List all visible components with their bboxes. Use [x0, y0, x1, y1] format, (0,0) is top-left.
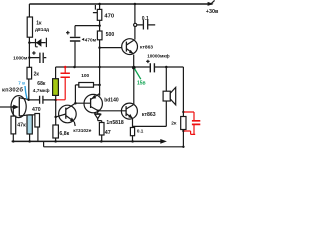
node lower rail 2k junction	[182, 146, 184, 148]
svg-text:2к: 2к	[171, 120, 177, 126]
svg-text:15в: 15в	[137, 81, 146, 87]
svg-text:0.1: 0.1	[137, 129, 144, 134]
node 2k bottom	[182, 130, 184, 132]
diode VD d814d zener	[29, 38, 46, 47]
resistor R 470 bottom	[35, 114, 40, 128]
annotation blue pointer 7v	[25, 86, 27, 99]
wire left branch vertical	[28, 4, 31, 99]
node rail dots	[12, 140, 15, 143]
svg-text:+30в: +30в	[206, 9, 219, 15]
resistor R 100	[79, 83, 94, 88]
resistor R 1k	[27, 17, 32, 37]
transistor Q kt3102e	[59, 105, 77, 123]
svg-text:68к: 68к	[37, 81, 46, 87]
svg-text:0.1: 0.1	[142, 16, 149, 22]
node feedback-base	[54, 116, 57, 119]
svg-text:1к: 1к	[36, 20, 42, 26]
node jfet drain	[27, 98, 30, 101]
diode VD 1n5818	[95, 111, 102, 123]
node top rail dots	[98, 3, 101, 6]
svg-text:2к: 2к	[34, 71, 40, 77]
svg-text:кп302б: кп302б	[2, 86, 23, 93]
capacitor C 4.7mkf	[29, 99, 56, 101]
transistor Q kt863 upper	[122, 39, 138, 55]
svg-text:bd140: bd140	[104, 97, 119, 103]
svg-text:470: 470	[32, 107, 41, 113]
node diode junction	[28, 41, 31, 44]
resistor R teal source	[27, 115, 32, 134]
resistor R 47k gate	[12, 107, 14, 141]
resistor R 470 top	[97, 9, 102, 20]
svg-text:47к: 47к	[17, 122, 26, 128]
svg-text:10000мкф: 10000мкф	[147, 53, 169, 59]
node feedback-cap	[54, 99, 57, 102]
node mid vertical dots	[98, 24, 101, 27]
wire kt863 upper base	[100, 47, 122, 49]
svg-text:100: 100	[81, 73, 89, 79]
wire mid bus y67	[56, 67, 184, 117]
wire ground rail	[12, 140, 161, 142]
resistor R 6.8k	[53, 125, 59, 138]
resistor R 68k green feedback	[53, 79, 59, 96]
svg-text:470м: 470м	[85, 37, 97, 42]
svg-text:4,7мкф: 4,7мкф	[33, 87, 50, 94]
svg-text:кт863: кт863	[142, 112, 156, 118]
resistor R 2k right	[181, 117, 186, 130]
capacitor C 10000mkf	[146, 60, 149, 63]
capacitor C 470m	[66, 26, 100, 67]
wire jfet source	[19, 115, 35, 116]
speaker	[133, 67, 167, 126]
svg-text:470: 470	[104, 14, 114, 20]
red capacitor parallel 68k	[56, 66, 70, 100]
transistor Q bd140	[84, 94, 102, 112]
transistor Q kp302b jfet	[11, 96, 26, 118]
svg-text:кт3102е: кт3102е	[73, 128, 91, 134]
power terminal +30V arrow	[208, 2, 214, 6]
svg-text:1000м: 1000м	[13, 56, 28, 62]
wire kt3102 collector to 100	[75, 85, 99, 103]
node bus dots	[73, 66, 76, 69]
wire lower ground return	[44, 141, 184, 146]
resistor R 47	[99, 123, 104, 136]
svg-text:7 в: 7 в	[18, 81, 25, 86]
stub fragment near 470	[93, 5, 97, 13]
resistor R 2k left	[27, 67, 32, 79]
ground rail end arrow	[160, 139, 167, 144]
wire top +30V rail	[29, 3, 212, 5]
node gate-47k	[12, 106, 14, 108]
capacitor C 0.1 top	[137, 24, 155, 26]
node bd140 collector	[97, 110, 100, 113]
wire feedback vertical	[55, 95, 57, 141]
wire mid vertical x99.6	[99, 4, 101, 96]
transistor Q kt863 lower	[133, 68, 135, 105]
resistor R 0.1	[130, 128, 134, 136]
svg-text:47: 47	[105, 130, 111, 136]
label 470m with arrow	[82, 38, 85, 41]
node cap 1000m junction	[28, 56, 31, 59]
svg-text:500: 500	[106, 32, 115, 38]
annotation green tick 15v	[135, 69, 141, 79]
svg-text:1n5818: 1n5818	[106, 120, 123, 126]
svg-text:6,8к: 6,8к	[59, 131, 69, 137]
node 2k top red tap	[182, 111, 184, 113]
resistor R 500	[97, 31, 102, 40]
node kt3102 collector	[74, 102, 77, 105]
node open circle 0.1 tap	[134, 23, 137, 26]
red capacitor parallel 2k	[184, 112, 200, 134]
svg-text:д814д: д814д	[35, 27, 49, 33]
capacitor C 1000m	[29, 51, 46, 57]
svg-text:кт863: кт863	[140, 45, 153, 51]
